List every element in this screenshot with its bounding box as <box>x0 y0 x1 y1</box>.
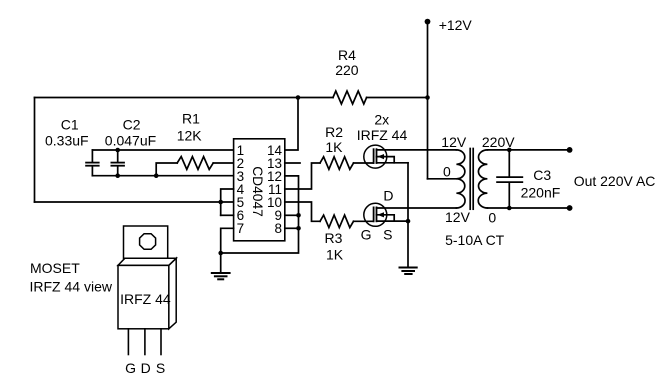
svg-text:1K: 1K <box>325 139 343 155</box>
op-amp U1 CD4047 IC body <box>234 139 285 241</box>
svg-text:R4: R4 <box>338 47 356 63</box>
transistor package top face <box>118 258 176 265</box>
node output bottom terminal <box>567 205 573 211</box>
svg-text:12V: 12V <box>445 209 471 225</box>
resistor R4 <box>333 91 367 104</box>
node +12V terminal <box>425 19 431 25</box>
ground symbol under pin7 <box>212 273 230 279</box>
transformer core <box>469 149 471 210</box>
svg-text:220nF: 220nF <box>521 185 561 201</box>
svg-text:R3: R3 <box>325 230 343 246</box>
svg-text:IRFZ 44: IRFZ 44 <box>120 291 171 307</box>
wire pin5 line <box>35 201 234 203</box>
transistor package pin labels <box>125 360 165 376</box>
node 220V junction <box>507 148 512 153</box>
svg-text:+12V: +12V <box>439 17 473 33</box>
wire R1 left branch <box>156 163 177 176</box>
capacitor C3 <box>497 150 560 208</box>
transistor Q1 upper IRFZ44 <box>364 145 428 168</box>
ground symbol under source bus <box>400 268 417 275</box>
wire pin11 to R2 <box>285 163 320 189</box>
svg-text:220: 220 <box>335 62 359 78</box>
svg-text:C2: C2 <box>123 117 141 133</box>
node C2 bottom junction <box>115 173 120 178</box>
svg-text:R1: R1 <box>182 111 200 127</box>
resistor R3 <box>320 215 354 228</box>
wire bottom loop pin7 to pin8/9/12 rail <box>221 176 299 253</box>
svg-text:CD4047: CD4047 <box>250 166 265 217</box>
wire R2 to upper gate <box>354 162 374 164</box>
svg-text:2x: 2x <box>374 112 389 128</box>
svg-text:MOSET: MOSET <box>30 260 80 276</box>
transistor package TO-220 tab <box>124 226 168 258</box>
svg-text:0: 0 <box>443 164 451 180</box>
svg-text:IRFZ 44: IRFZ 44 <box>357 127 408 143</box>
wire top bus from outer loop to R4 <box>35 97 334 99</box>
svg-text:Out 220V AC: Out 220V AC <box>574 173 656 189</box>
node ground loop junction <box>218 251 223 256</box>
node source bus junction <box>406 219 411 224</box>
svg-text:12K: 12K <box>177 127 203 143</box>
svg-text:D: D <box>141 360 151 376</box>
transformer T1 secondary winding <box>478 150 487 208</box>
transistor package leg D <box>144 329 146 355</box>
wire +12V vertical rail down to transformer center tap <box>427 22 429 179</box>
node pin9 junction <box>296 213 301 218</box>
node pin5 junction <box>218 200 223 205</box>
wire pin4 to left vertical <box>221 189 234 215</box>
wire pin9 stub <box>285 214 299 216</box>
svg-text:R2: R2 <box>325 124 343 140</box>
transistor Q2 lower IRFZ44 <box>364 203 457 226</box>
svg-text:0.047uF: 0.047uF <box>105 133 156 149</box>
svg-text:C1: C1 <box>61 117 79 133</box>
wire bottom cap bus to pin 3 <box>92 175 233 177</box>
svg-text:G: G <box>125 360 136 376</box>
wire R3 to lower gate <box>354 220 374 222</box>
wire source bus down <box>407 163 409 268</box>
svg-text:12V: 12V <box>441 134 467 150</box>
svg-text:1K: 1K <box>326 246 344 262</box>
svg-text:7: 7 <box>237 221 245 236</box>
transistor package right face <box>169 258 176 329</box>
svg-text:8: 8 <box>274 221 282 236</box>
IC pin numbers 1-14 <box>237 143 283 236</box>
wire riser from top bus down to pin 14 <box>285 98 298 151</box>
svg-text:S: S <box>383 226 392 242</box>
svg-text:G: G <box>361 226 372 242</box>
svg-text:220V: 220V <box>482 134 515 150</box>
node R1 branch junction <box>154 173 159 178</box>
wire secondary bottom lead to output <box>487 207 569 209</box>
resistor R1 <box>177 157 213 170</box>
wire upper drain to transformer top tap (crossover at +12V rail) <box>428 149 457 151</box>
svg-text:C3: C3 <box>533 167 551 183</box>
wire pin7 to ground <box>221 228 234 272</box>
wire outer loop left edge <box>34 98 36 203</box>
wire secondary top lead to output <box>487 149 569 151</box>
node 0 junction <box>507 206 512 211</box>
wire R1 right to pin 2 <box>213 162 233 164</box>
svg-text:D: D <box>383 188 393 204</box>
node pin8 junction <box>296 226 301 231</box>
wire pin8 stub <box>285 227 299 229</box>
transistor package hole <box>140 234 156 250</box>
wire pin6 stub <box>221 214 234 216</box>
wire top cap bus to pin 1 <box>92 149 233 151</box>
node R4-right junction <box>425 95 430 100</box>
transistor package front face <box>118 265 169 328</box>
wire center tap <box>428 178 457 180</box>
transformer T1 primary winding <box>456 150 465 208</box>
node C2 top junction <box>115 148 120 153</box>
svg-text:IRFZ 44 view: IRFZ 44 view <box>30 279 113 295</box>
resistor R2 <box>320 157 354 170</box>
svg-text:0: 0 <box>488 210 496 226</box>
transistor package leg G <box>127 329 129 355</box>
node output top terminal <box>567 147 573 153</box>
transistor package leg S <box>160 329 162 355</box>
svg-text:5-10A CT: 5-10A CT <box>445 232 505 248</box>
capacitor C1 <box>45 117 99 176</box>
wire R4 right to +12V rail <box>367 97 428 99</box>
svg-text:0.33uF: 0.33uF <box>45 133 89 149</box>
wire pin10 to R3 <box>285 202 320 221</box>
wire pin13 stub <box>285 162 300 164</box>
node R4-left junction <box>296 95 301 100</box>
capacitor C2 <box>105 117 156 176</box>
svg-text:S: S <box>156 360 165 376</box>
